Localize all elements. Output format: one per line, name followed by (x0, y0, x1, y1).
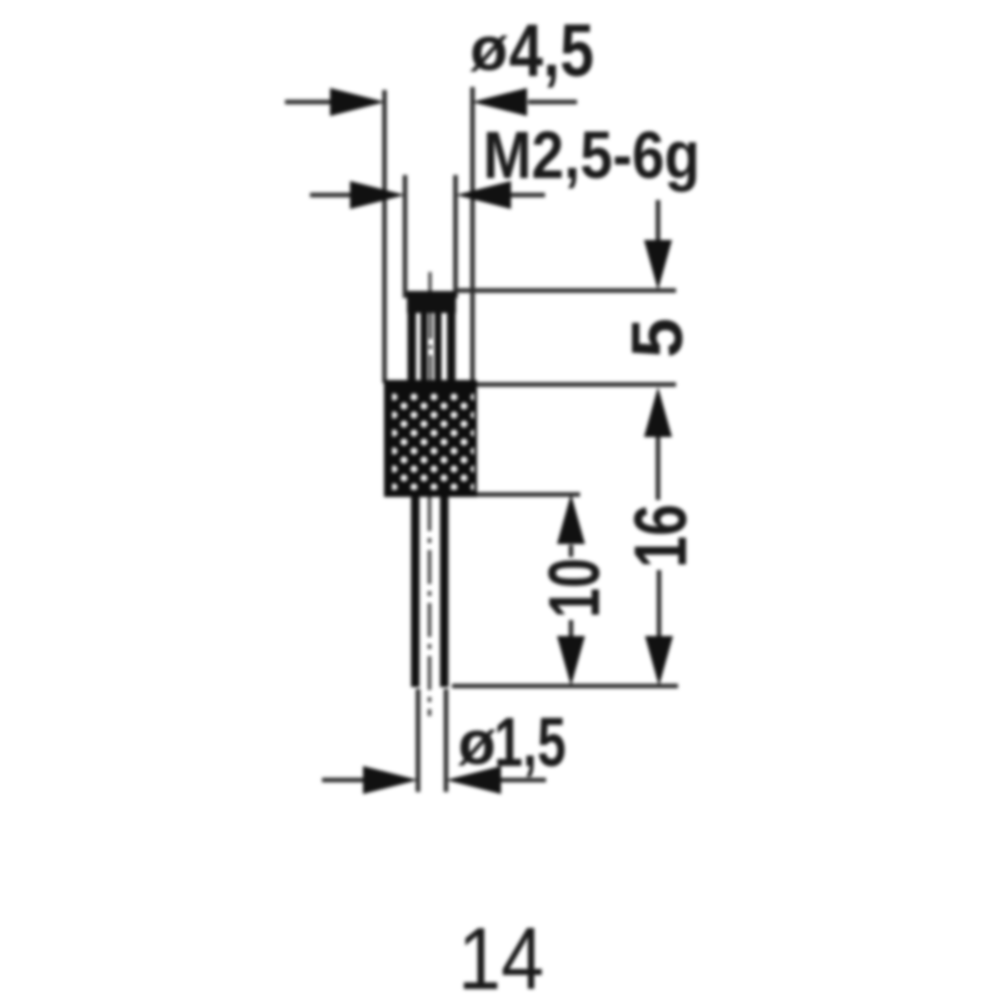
svg-text:ø: ø (458, 709, 496, 778)
svg-text:16: 16 (619, 504, 702, 568)
svg-text:M2,5-6g: M2,5-6g (483, 118, 700, 193)
svg-text:14: 14 (458, 909, 544, 1000)
svg-text:ø: ø (470, 15, 508, 84)
svg-text:10: 10 (535, 558, 615, 618)
svg-text:1,5: 1,5 (494, 703, 566, 781)
svg-text:4,5: 4,5 (509, 9, 594, 92)
svg-text:5: 5 (618, 318, 698, 358)
